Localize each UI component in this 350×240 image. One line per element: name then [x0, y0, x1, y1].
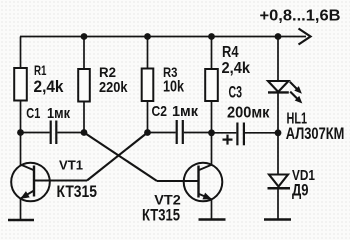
- wire node D down to VT2 collector: [211, 133, 213, 165]
- node C: [144, 129, 151, 136]
- svg-text:АЛ307КМ: АЛ307КМ: [286, 124, 345, 143]
- plus sign of C3: [223, 135, 233, 145]
- resistor R3: [142, 69, 154, 102]
- wire VT2 emitter down to ground: [211, 199, 213, 220]
- svg-text:1мк: 1мк: [47, 105, 70, 122]
- wire diagonal node C to VT1 base: [87, 133, 148, 181]
- wire VD1 cathode to ground: [277, 188, 279, 219]
- wire C2 right plate to node D: [184, 132, 212, 134]
- node D: [208, 129, 215, 136]
- svg-text:10k: 10k: [163, 78, 184, 95]
- svg-text:+0,8...1,6В: +0,8...1,6В: [260, 8, 341, 25]
- supply arrow: [299, 29, 311, 45]
- ground under VD1: [264, 218, 291, 221]
- wire C1 right plate to node B: [57, 132, 84, 134]
- wire HL1 column top: [277, 37, 279, 82]
- ground under VT2: [199, 218, 226, 221]
- capacitor C3 polarized: [237, 123, 244, 146]
- wire R4 column top: [211, 37, 213, 70]
- wire left column rail corner down to R1: [20, 37, 22, 69]
- transistor VT1: [11, 163, 50, 202]
- resistor R1: [14, 68, 27, 101]
- svg-text:2,4k: 2,4k: [34, 77, 64, 96]
- node rail-HL1: [275, 33, 282, 40]
- capacitor C2: [177, 120, 183, 144]
- svg-text:200мк: 200мк: [227, 104, 270, 121]
- wire R1 bottom to node A: [20, 101, 22, 133]
- svg-text:VT1: VT1: [59, 158, 83, 173]
- wire R4 bottom to node D: [211, 101, 213, 133]
- transistor VT2: [184, 163, 223, 202]
- wire R3 bottom to node C: [147, 101, 149, 133]
- wire top supply rail: [20, 36, 306, 38]
- wire VT1 base horizontal: [34, 180, 87, 182]
- svg-text:220k: 220k: [99, 79, 128, 96]
- wire VT1 emitter down to ground: [20, 198, 22, 219]
- svg-text:1мк: 1мк: [172, 103, 198, 120]
- svg-text:Д9: Д9: [292, 181, 309, 200]
- node E: [275, 129, 282, 136]
- wire R2 column top: [83, 37, 85, 70]
- node rail-R3: [144, 33, 151, 40]
- LED HL1: [268, 81, 302, 103]
- svg-text:С3: С3: [229, 83, 243, 102]
- capacitor C1: [51, 121, 57, 145]
- wire R3 column top: [147, 37, 149, 69]
- resistor R2: [78, 69, 90, 102]
- wire node D to C3 left plate: [212, 132, 237, 134]
- svg-text:2,4k: 2,4k: [222, 60, 251, 77]
- svg-text:С2: С2: [152, 103, 168, 120]
- wire diagonal node B to VT2 base: [84, 133, 157, 182]
- wire node A down to VT1 collector: [20, 133, 22, 166]
- wire node E to VD1: [277, 133, 279, 175]
- svg-text:R1: R1: [34, 62, 47, 78]
- node B: [81, 129, 88, 136]
- wire node A to C1 left plate: [21, 132, 50, 134]
- node rail-R2: [81, 33, 88, 40]
- node rail-R4: [208, 33, 215, 40]
- resistor R4: [205, 69, 218, 101]
- svg-text:КТ315: КТ315: [142, 205, 180, 224]
- svg-text:С1: С1: [26, 105, 40, 122]
- wire R2 bottom to node B: [83, 102, 85, 133]
- node A: [17, 129, 24, 136]
- wire VT2 base horizontal: [157, 180, 199, 182]
- diode VD1: [268, 175, 291, 189]
- svg-text:R4: R4: [222, 44, 239, 61]
- svg-text:R2: R2: [99, 64, 116, 80]
- wire HL1 cathode to node E: [277, 93, 279, 133]
- svg-text:КТ315: КТ315: [57, 182, 98, 201]
- wire node C to C2 left plate: [148, 132, 176, 134]
- ground under VT1: [8, 219, 34, 222]
- wire C3 right plate to node E: [245, 132, 278, 134]
